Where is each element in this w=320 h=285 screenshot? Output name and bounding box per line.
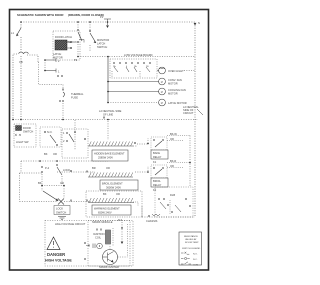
thermal switch column: [59, 85, 84, 121]
chassis ground wire: [142, 206, 195, 223]
svg-text:BK: BK: [103, 192, 107, 196]
broil element row2: [86, 166, 133, 177]
bake circuit box: [62, 120, 88, 158]
svg-text:M: M: [161, 102, 163, 105]
monitor latch switch: [89, 22, 109, 51]
svg-text:OR: OR: [53, 152, 57, 156]
oven light: [157, 67, 195, 74]
svg-text:BK: BK: [44, 152, 48, 156]
svg-text:SWITCH LEGEND: SWITCH LEGEND: [182, 248, 201, 250]
svg-text:BK-W: BK-W: [170, 132, 177, 136]
wire bus y201: [20, 200, 92, 202]
spark module right wires: [118, 218, 128, 257]
lock cam X: [58, 199, 64, 205]
node L1 top-left: [20, 21, 108, 23]
svg-text:COIL: COIL: [95, 236, 102, 240]
node right top: [194, 21, 200, 217]
svg-text:SCHEMATIC SHOWN WITH DOOR: SCHEMATIC SHOWN WITH DOOR: [17, 13, 64, 17]
svg-text:BROIL ELEMENT: BROIL ELEMENT: [102, 182, 123, 186]
right mid bus x190: [189, 136, 191, 188]
ignition coil: [93, 228, 113, 246]
svg-text:VALUES AT: VALUES AT: [185, 238, 197, 241]
svg-text:OVEN LIGHT: OVEN LIGHT: [168, 69, 184, 73]
wire L2 bus x13: [13, 54, 17, 120]
circuit breaker: [19, 52, 29, 119]
svg-text:BK-R: BK-R: [170, 159, 176, 163]
danger text: [45, 252, 72, 263]
svg-text:K1: K1: [153, 160, 157, 164]
svg-text:RELAY: RELAY: [153, 155, 162, 159]
svg-text:MOTOR: MOTOR: [168, 92, 178, 96]
relay box row1: [151, 132, 190, 164]
svg-text:LOW VOLTAGE BOARD: LOW VOLTAGE BOARD: [124, 53, 153, 57]
svg-text:COOLING FAN: COOLING FAN: [168, 88, 186, 92]
svg-text:L2 NEUTRAL SIDE: L2 NEUTRAL SIDE: [99, 109, 122, 113]
svg-text:IGNITION: IGNITION: [93, 232, 105, 236]
spark igniter transistor: [99, 245, 119, 269]
left lower wires: [20, 161, 50, 202]
wire row1 to relay: [133, 138, 149, 146]
title text: [17, 13, 104, 17]
label box row3: [92, 205, 131, 215]
svg-text:LOCK: LOCK: [63, 168, 70, 172]
svg-text:RELAY: RELAY: [153, 183, 162, 187]
wire neutral bus y119.5: [12, 119, 198, 121]
svg-text:COM: COM: [193, 265, 198, 267]
svg-text:SWITCH: SWITCH: [23, 130, 33, 134]
bake element: [88, 142, 136, 147]
danger box: [45, 221, 133, 267]
neutral note: [183, 105, 203, 115]
spark module box: [88, 220, 130, 266]
svg-text:LATCH: LATCH: [97, 42, 105, 46]
svg-text:SPARK MODULE: SPARK MODULE: [92, 220, 113, 224]
svg-text:ROOM TEMP: ROOM TEMP: [185, 242, 199, 244]
svg-text:N.C.: N.C.: [193, 259, 198, 261]
svg-text:P-3: P-3: [118, 218, 123, 222]
door latch motor (hatched): [53, 40, 72, 60]
svg-text:MOTOR: MOTOR: [168, 82, 178, 86]
svg-text:OR: OR: [170, 164, 174, 168]
connector P2 wires: [39, 58, 64, 85]
connector P1 stub: [100, 15, 111, 28]
svg-text:LATCH: LATCH: [53, 52, 61, 56]
svg-text:N.O.: N.O.: [47, 130, 53, 134]
relay box row2: [151, 159, 190, 192]
legend box: [179, 232, 202, 267]
svg-text:THERMAL: THERMAL: [71, 92, 84, 96]
svg-text:SWITCH: SWITCH: [56, 211, 66, 215]
vertical main bus x108: [107, 56, 109, 140]
svg-text:UNLOCK: UNLOCK: [66, 40, 77, 44]
svg-text:HIGH VOLTAGE: HIGH VOLTAGE: [45, 259, 72, 263]
svg-text:CHASSIS: CHASSIS: [146, 219, 158, 223]
svg-text:LATCH MOTOR: LATCH MOTOR: [168, 101, 187, 105]
svg-text:3600W 240V: 3600W 240V: [106, 186, 121, 190]
svg-text:WARMING ELEMENT: WARMING ELEMENT: [94, 207, 120, 211]
door latch box: [53, 31, 80, 60]
latch motor M3: [107, 99, 187, 106]
svg-text:LIGHT SW: LIGHT SW: [16, 140, 29, 144]
svg-text:P-4: P-4: [45, 166, 50, 170]
svg-text:DLB: DLB: [170, 193, 175, 197]
svg-text:OR: OR: [170, 137, 174, 141]
selector switch arc: [38, 181, 65, 201]
danger box x marks: [84, 242, 86, 260]
svg-text:650W 240V: 650W 240V: [98, 211, 112, 215]
svg-text:MOTOR: MOTOR: [53, 56, 63, 60]
svg-text:M: M: [161, 91, 163, 94]
svg-text:CIRCUIT: CIRCUIT: [183, 111, 194, 115]
svg-text:N.O.: N.O.: [193, 254, 198, 256]
svg-text:OR: OR: [106, 166, 110, 170]
lower-left switch pair: [56, 164, 70, 186]
svg-text:(DRAWN, DOOR CLOSED): (DRAWN, DOOR CLOSED): [68, 13, 104, 17]
connector note above bus: [99, 109, 122, 119]
svg-text:BROIL: BROIL: [153, 179, 161, 183]
svg-text:FUSE: FUSE: [71, 96, 78, 100]
svg-text:DANGER: DANGER: [47, 252, 65, 257]
svg-text:BR: BR: [92, 166, 96, 170]
latch switch column: [66, 22, 84, 62]
svg-text:OR: OR: [60, 181, 64, 185]
wire row2 to relay: [135, 166, 149, 173]
cooling motor M2: [107, 88, 186, 96]
svg-text:MONITOR: MONITOR: [97, 38, 109, 42]
svg-text:DOOR: DOOR: [23, 126, 31, 130]
svg-text:BAKE: BAKE: [153, 151, 160, 155]
svg-text:HIDDEN BAKE ELEMENT: HIDDEN BAKE ELEMENT: [94, 152, 125, 156]
control board box: [110, 53, 157, 78]
svg-text:RESISTANCE: RESISTANCE: [184, 235, 198, 238]
warning triangle: [47, 237, 60, 250]
border frame: [10, 10, 209, 271]
door switch box left: [14, 124, 36, 147]
element box row3: [86, 191, 142, 217]
neon indicator and capacitor: [86, 243, 102, 249]
convection motor M1: [107, 78, 182, 86]
svg-text:N: N: [198, 21, 200, 25]
wire to connector: [27, 55, 38, 62]
lock switch label box: [54, 206, 70, 220]
svg-text:M: M: [161, 81, 163, 84]
wire bus y161: [21, 152, 108, 162]
wire y172 to element: [57, 170, 95, 172]
mid switch cluster: [40, 127, 61, 147]
label box row1: [92, 150, 128, 161]
svg-text:CONV. FAN: CONV. FAN: [168, 78, 182, 82]
right relay cluster box: [155, 187, 193, 217]
switch L1: [11, 22, 21, 52]
svg-text:HIGH VOLTAGE CIRCUIT: HIGH VOLTAGE CIRCUIT: [55, 222, 86, 226]
svg-text:OR: OR: [116, 192, 120, 196]
svg-text:SPARK IGNITER: SPARK IGNITER: [99, 265, 119, 269]
svg-text:LOCK: LOCK: [56, 207, 63, 211]
svg-text:P1: P1: [100, 15, 104, 19]
svg-text:BK: BK: [38, 181, 42, 185]
wire L1 top bus: [21, 21, 195, 23]
svg-text:SWITCH: SWITCH: [97, 45, 107, 49]
svg-text:P2: P2: [74, 58, 78, 62]
svg-text:OF LINE: OF LINE: [103, 113, 113, 117]
svg-text:DOOR LATCH: DOOR LATCH: [55, 35, 72, 39]
label box row2: [100, 180, 138, 190]
wire bus y57: [78, 56, 195, 58]
svg-text:2585W 240V: 2585W 240V: [98, 156, 113, 160]
